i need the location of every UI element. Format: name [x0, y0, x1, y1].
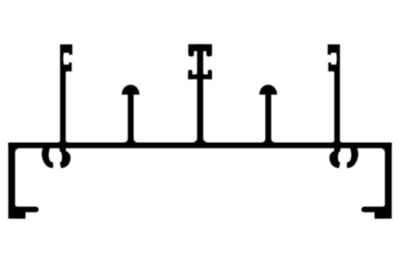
right mushroom stud (element 4): dome	[259, 85, 277, 95]
element 3 anchor bar	[188, 75, 212, 80]
left mushroom stud (element 2): dome	[122, 85, 140, 95]
element 3 anchor fingers	[188, 70, 192, 79]
right C-channel wall (element 5, mirror of element 1)	[328, 44, 340, 143]
element 3 cap end lips	[188, 50, 194, 57]
element 3 base fillets	[193, 138, 198, 143]
element 2 base fillets	[124, 139, 128, 143]
main horizontal rail	[8, 143, 391, 149]
element 1 base fillets	[58, 140, 61, 143]
left screw-boss claw pair: left claw	[42, 148, 53, 168]
center T-wall (element 3): top cap	[188, 44, 212, 51]
right rail-wall inner fillet	[380, 148, 385, 153]
right screw-boss claw pair: right claw	[347, 148, 358, 168]
element 4 base fillets	[261, 139, 265, 143]
left C-channel wall (element 1)	[60, 44, 72, 143]
left rail-wall inner fillet	[15, 148, 20, 153]
right screw-boss claw pair: left claw	[329, 148, 340, 168]
element 3 anchor-stem fillets	[195, 73, 197, 75]
left screw-boss claw pair: right claw	[60, 148, 71, 168]
element 3 stem	[197, 44, 203, 143]
element 4 stem	[265, 94, 271, 143]
element 2 stem	[128, 94, 134, 143]
left foot step (bottom bar beyond wall)	[15, 212, 25, 218]
left outer wall with foot and tab	[8, 143, 38, 219]
element 5 base fillets	[340, 140, 343, 143]
element 5 stub below rail	[334, 148, 340, 152]
right outer wall with foot and tab (mirror)	[361, 143, 391, 219]
element 1 stub below rail	[60, 148, 66, 152]
right foot step (bottom bar beyond wall)	[375, 212, 385, 218]
